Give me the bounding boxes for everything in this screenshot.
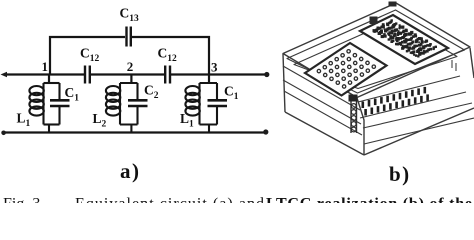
svg-text:C12: C12 [158, 46, 178, 65]
inductor panel 2 dense coil texture [373, 19, 438, 57]
wire: tank3 ground stub [208, 125, 210, 133]
wire: top coupling branch left segment [50, 37, 125, 74]
box bottom-right edge [364, 108, 474, 155]
svg-text:C2: C2 [144, 83, 159, 102]
port dot: ground rail right [263, 129, 268, 134]
right face layer line lower [363, 103, 472, 128]
capacitor C12 (left) plates [85, 66, 90, 84]
inductor L1 coil loops [29, 86, 43, 95]
LTCC module 3D drawing [283, 3, 474, 155]
svg-text:L2: L2 [93, 111, 107, 130]
svg-text:1: 1 [42, 59, 49, 74]
right face layer line mid [360, 92, 466, 118]
capacitor C13 plates [127, 27, 131, 47]
via stack circles [351, 104, 356, 132]
capacitor C1 branch wire [58, 83, 60, 125]
wire: main line node1-node2 segment [91, 73, 164, 75]
svg-text:Equivalent circuit (a) and: Equivalent circuit (a) and [75, 196, 264, 203]
svg-text:L1: L1 [180, 111, 194, 130]
wire: tank2 bottom [120, 123, 138, 125]
inductor L1' branch wire [198, 83, 200, 125]
svg-text:b): b) [389, 162, 411, 186]
SCHEMATIC [4, 27, 266, 133]
wire: node 3 stub [208, 75, 210, 84]
wire: tank2 top [120, 82, 138, 84]
resonator tank 2 [106, 83, 148, 133]
capacitor C12 (right) plates [165, 66, 170, 84]
inductor L1' coil loops [185, 86, 199, 95]
port dot: ground rail left [1, 131, 6, 136]
svg-text:2: 2 [127, 59, 134, 74]
wire: tank1 ground stub [48, 125, 50, 133]
capacitor C1' branch wire [216, 83, 218, 125]
inductor L1 branch wire [42, 83, 44, 125]
inductor L2 coil loops [106, 86, 120, 95]
top rear small marker [389, 2, 397, 7]
via stack vertical lines (front left) [351, 99, 357, 133]
box top face outer rim [283, 3, 470, 98]
box bottom-left edge [285, 112, 364, 155]
inductor panel 1 via dot array [317, 50, 375, 89]
svg-text:C13: C13 [120, 6, 140, 25]
wire: node 1 stub [48, 75, 50, 84]
svg-text:L1: L1 [17, 111, 31, 130]
panel 2 corner pad [370, 17, 378, 25]
via stack pad [349, 95, 358, 102]
inductor panel 2 outline (top face right) [360, 15, 448, 64]
inductor panel 1 outline (top face left) [305, 43, 387, 96]
svg-text:LTCC realization (b) of the: LTCC realization (b) of the [266, 196, 472, 203]
box right vertical edge [470, 48, 474, 78]
box front vertical edge [357, 98, 364, 155]
wire: tank1 bottom [44, 123, 60, 125]
capacitor C1 plates [50, 100, 70, 106]
svg-text:C12: C12 [80, 46, 100, 65]
capacitor C2 plates [128, 100, 148, 106]
wire: main line left port segment [4, 73, 84, 75]
wire: top coupling branch right segment [132, 37, 209, 74]
right face layer line bottom [364, 118, 474, 144]
wire: tank3 top [200, 82, 218, 84]
wire: main line node2-node3 segment [171, 73, 266, 75]
svg-text:3: 3 [211, 60, 218, 75]
capacitor C1' plates [208, 100, 228, 106]
wire: node 2 stub [130, 75, 132, 84]
capacitor C2 branch wire [136, 83, 138, 125]
box top face mid rim [287, 10, 465, 93]
resonator tank 3 [185, 83, 227, 133]
left face layer line 3 [284, 91, 362, 135]
box left vertical edge [283, 54, 285, 112]
wire: tank3 bottom [200, 123, 218, 125]
wire: tank2 ground stub [130, 125, 132, 133]
port dot: output (right, main line) [264, 72, 269, 77]
interdigital capacitor comb row (front face) [362, 87, 429, 116]
right face layer line upper [358, 76, 460, 102]
left face layer line 2 [283, 80, 361, 124]
box top face inner rim [294, 20, 457, 89]
left face layer line 1 [283, 66, 360, 110]
inductor L2 branch wire [119, 83, 121, 125]
wire: tank1 top [44, 82, 60, 84]
svg-text:Fig. 3.: Fig. 3. [3, 196, 44, 203]
top face right small marks [452, 60, 456, 71]
port arrow: input (left, main line) [1, 72, 8, 77]
wire: ground rail [4, 131, 266, 133]
resonator tank 1 [29, 83, 69, 133]
svg-text:a): a) [120, 159, 141, 183]
